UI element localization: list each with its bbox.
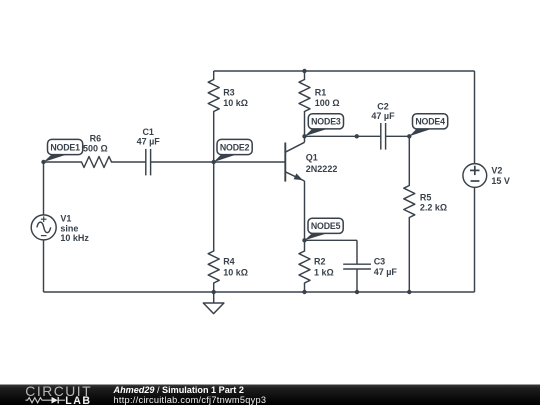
wire R4 bottom lead (213, 283, 215, 292)
node label NODE3 (305, 114, 344, 137)
wire R2 bottom lead (304, 283, 306, 292)
svg-text:C3: C3 (374, 257, 386, 267)
svg-text:10 kHz: 10 kHz (60, 233, 89, 243)
V1 sine wave (37, 222, 51, 233)
wire left rail upper (NODE1 to V1) (43, 162, 45, 215)
wire R3 bottom lead to NODE2 (213, 112, 215, 163)
svg-text:R4: R4 (223, 257, 235, 267)
node junction NODE5 point (302, 238, 306, 242)
svg-text:47 µF: 47 µF (137, 136, 161, 146)
emitter arrowhead (294, 173, 303, 180)
node label NODE5 (305, 218, 344, 240)
svg-text:NODE1: NODE1 (50, 142, 80, 152)
V2 plus sign (470, 169, 480, 171)
resistor R5 2.2 kohm (404, 186, 447, 218)
node junction NODE3 collector point (302, 134, 306, 138)
wire NODE3 to C2 (305, 135, 381, 137)
node junction NODE2 point (212, 160, 216, 164)
wire R5 bottom lead (408, 218, 410, 293)
svg-text:47 µF: 47 µF (371, 111, 395, 121)
wire R3 top lead (213, 71, 215, 80)
svg-text:1 kΩ: 1 kΩ (314, 268, 334, 278)
wire bottom rail (44, 291, 475, 293)
wire NODE5 branch to C3 horizontal (305, 239, 358, 241)
node junction R5 bottom junction (407, 290, 411, 294)
capacitor C1 47 uF (137, 127, 161, 175)
wire R6 to C1 (112, 161, 146, 163)
wire NODE4 to R5 (408, 136, 410, 185)
V1 plus sign (41, 218, 47, 220)
svg-text:V2: V2 (491, 166, 502, 176)
svg-text:R3: R3 (223, 88, 235, 98)
svg-text:NODE4: NODE4 (415, 117, 445, 127)
wire top rail (214, 70, 475, 72)
svg-text:V1: V1 (60, 214, 71, 224)
V2 minus sign (471, 180, 480, 182)
svg-text:Q1: Q1 (306, 152, 318, 162)
svg-text:sine: sine (60, 223, 78, 233)
resistor R3 10 kohm (208, 80, 248, 112)
wire R1 top lead (304, 71, 306, 80)
footer bar (0, 385, 540, 405)
node junction NODE4 point (407, 134, 411, 138)
svg-text:R1: R1 (315, 88, 327, 98)
svg-text:10 kΩ: 10 kΩ (223, 268, 248, 278)
capacitor C3 47 uF (343, 257, 397, 277)
wire C3 branch vertical (356, 240, 358, 264)
node junction junction on collector wire (355, 134, 359, 138)
node label NODE1 (44, 139, 83, 162)
svg-text:R2: R2 (314, 257, 326, 267)
resistor R1 100 ohm (299, 80, 340, 112)
node junction NODE1 point (41, 160, 45, 164)
wire NODE2 to R4 (213, 162, 215, 251)
node label NODE4 (409, 114, 447, 137)
svg-text:NODE5: NODE5 (311, 221, 341, 231)
wire right rail upper (top rail to V2) (474, 71, 476, 163)
svg-text:500 Ω: 500 Ω (83, 143, 108, 153)
ground symbol (203, 292, 224, 314)
wire R1 bottom lead to NODE3 (304, 112, 306, 137)
resistor R4 10 kohm (208, 251, 248, 283)
svg-text:R5: R5 (420, 192, 432, 202)
CircuitLab logo (25, 383, 92, 405)
svg-text:2N2222: 2N2222 (306, 164, 338, 174)
node label NODE2 (214, 139, 253, 162)
node junction ground junction (212, 290, 216, 294)
svg-text:2.2 kΩ: 2.2 kΩ (420, 202, 447, 212)
wire NODE5 to R2 (304, 240, 306, 251)
svg-text:LAB: LAB (65, 395, 91, 405)
wire NODE1 to R6 (44, 161, 82, 163)
svg-text:10 kΩ: 10 kΩ (223, 98, 248, 108)
wire C1 to transistor base through NODE2 (151, 161, 286, 163)
svg-text:100 Ω: 100 Ω (315, 98, 340, 108)
wire C3 bottom lead (356, 269, 358, 292)
wire C2 to NODE4 (386, 135, 410, 137)
svg-text:NODE3: NODE3 (311, 117, 341, 127)
svg-text:15 V: 15 V (491, 176, 510, 186)
footer credit text (113, 385, 267, 405)
svg-text:http://circuitlab.com/cfj7tnwm: http://circuitlab.com/cfj7tnwm5qyp3 (114, 395, 267, 405)
node junction R1 top on rail (302, 69, 306, 73)
voltage source V2 15 V (463, 164, 510, 188)
svg-text:Ahmed29 / Simulation 1 Part 2: Ahmed29 / Simulation 1 Part 2 (113, 385, 244, 395)
svg-text:R6: R6 (90, 133, 102, 143)
transistor Q1 2N2222 (285, 136, 337, 181)
node junction C3 bottom junction (355, 290, 359, 294)
resistor R2 1 kohm (299, 251, 334, 283)
svg-text:NODE2: NODE2 (220, 142, 250, 152)
wire emitter to NODE5 (304, 181, 306, 240)
resistor R6 500 ohm (82, 133, 112, 167)
svg-text:47 µF: 47 µF (374, 267, 398, 277)
capacitor C2 47 uF (371, 102, 395, 150)
node junction R2 bottom junction (302, 290, 306, 294)
wire left rail lower (V1 to bottom rail) (43, 240, 45, 292)
voltage source V1 sine 10 kHz (31, 214, 89, 244)
V1 minus sign (41, 235, 47, 237)
wire right rail lower (V2 to bottom rail) (474, 188, 476, 292)
